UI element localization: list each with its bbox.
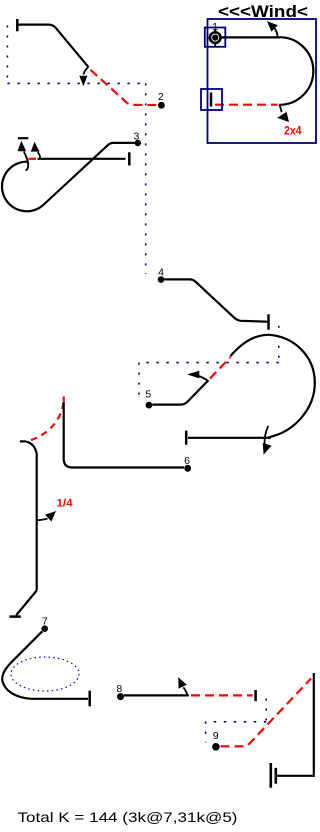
figure 1 exit roll arrow	[277, 105, 289, 122]
figure 6 up line	[64, 402, 184, 468]
figure 5 guide dotted: horizontal	[139, 362, 279, 364]
figure 5 exit tick	[185, 431, 188, 445]
figure 9 end lines	[276, 673, 314, 776]
figure 9 inverted level and 45-up (red dashed)	[221, 679, 312, 747]
figure 3 spin arrow right	[31, 142, 40, 159]
figure 5 exit roll arrow	[263, 426, 272, 455]
figure 4 lines	[164, 279, 267, 321]
figure 3 top line and 45-down diagonal	[43, 143, 138, 206]
box guide dotted: left vertical	[6, 26, 8, 84]
start bullseye	[207, 29, 224, 46]
figure 9 guide dotted: horizontal	[206, 721, 267, 723]
figure 4 end tick	[267, 314, 270, 330]
figure 3 spin arrow left	[18, 141, 29, 171]
start marker square	[205, 28, 226, 47]
figure 7 dotted ellipse guide	[11, 657, 79, 691]
svg-text:5: 5	[145, 389, 151, 401]
figure 7 entry corner down	[26, 442, 37, 454]
quarter roll arrow	[37, 511, 56, 522]
end marker square	[201, 89, 222, 110]
node 8	[117, 693, 124, 700]
figure 5 entry level and 45-up	[153, 380, 209, 404]
svg-text:6: 6	[184, 455, 190, 467]
figure 3 end tick	[128, 152, 131, 165]
svg-text:7: 7	[42, 615, 48, 627]
node 9	[212, 743, 220, 751]
svg-text:Total K = 144 (3k@7,31k@5): Total K = 144 (3k@7,31k@5)	[18, 809, 238, 825]
figure 1 half loop	[279, 37, 313, 105]
figure 5 half-roll arrow on 45 line	[187, 371, 208, 381]
node 5	[146, 402, 153, 409]
svg-text:<<<Wind<: <<<Wind<	[218, 2, 308, 21]
figure 8 end tick	[254, 690, 257, 701]
figure 5 loop	[231, 335, 315, 438]
node 2	[158, 102, 165, 109]
node 6	[184, 465, 191, 472]
svg-text:2x4: 2x4	[284, 125, 302, 137]
figure 5 guide dotted: left vertical	[138, 363, 140, 396]
figure 7 foot tick	[9, 615, 20, 618]
figure 9 guide dotted: right vertical	[265, 699, 267, 722]
end marker tick	[210, 93, 213, 107]
svg-text:9: 9	[213, 730, 219, 742]
figure 3 level line	[38, 158, 126, 160]
figure 7 45-down to foot	[16, 591, 37, 616]
figure 1 entry line	[222, 36, 281, 38]
figure 3 red inverted dash	[29, 158, 37, 160]
svg-text:3: 3	[133, 130, 139, 142]
figure 3 loop arc	[2, 162, 43, 212]
figure 3 spin cap bar	[18, 137, 28, 139]
figure 2 half-roll arrow	[79, 67, 88, 86]
figure 5 exit level line	[188, 437, 271, 439]
sequence end bar tall	[269, 763, 272, 788]
figure 8 half-roll arrow	[178, 677, 187, 695]
node 3	[135, 140, 141, 146]
figure 5 guide dotted: right vertical	[278, 326, 280, 363]
figure 6 red push-over cap	[63, 396, 65, 401]
figure 5 inverted 45-up (red dashed)	[210, 357, 231, 379]
figure 2 level and 45-down lines	[17, 25, 88, 68]
figure 1 half-roll arrow (entry)	[267, 21, 278, 36]
wind figure box	[208, 19, 317, 143]
sequence end bar short	[274, 768, 277, 784]
figure 7 end tick	[88, 691, 91, 707]
svg-text:1/4: 1/4	[57, 498, 74, 510]
box guide dotted: horizontal	[7, 82, 146, 84]
figure 6 inverted arc (red dashed)	[28, 403, 64, 442]
box guide dotted: mid vertical	[145, 83, 147, 274]
node 7	[41, 625, 48, 632]
figure 7 vertical down line	[36, 454, 38, 591]
figure 8 inverted level line (red dashed)	[191, 694, 253, 696]
figure 2 entry tick	[16, 19, 19, 31]
figure 9 guide dotted: left vertical	[205, 722, 207, 743]
figure 6 inverted exit stub	[20, 440, 26, 442]
node 4	[158, 276, 165, 283]
svg-text:2: 2	[158, 91, 164, 103]
svg-text:4: 4	[158, 267, 164, 279]
figure 7 loop: 45 down then arc to level	[2, 631, 88, 699]
svg-text:8: 8	[116, 683, 122, 695]
figure 8 level line	[124, 694, 189, 696]
figure 2 inverted 45-down and level (red dashed)	[91, 70, 158, 105]
figure 1 inverted exit line	[215, 104, 278, 106]
